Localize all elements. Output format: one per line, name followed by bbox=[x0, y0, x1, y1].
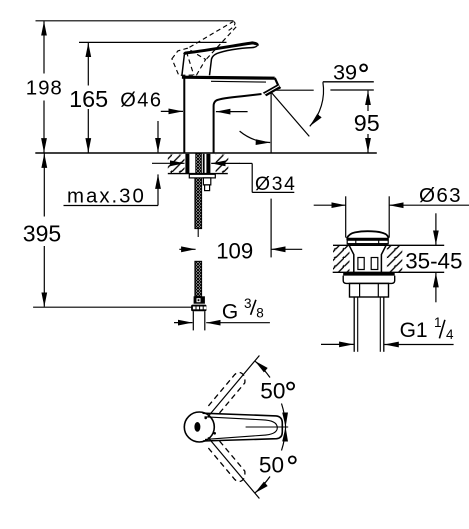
svg-text:50: 50 bbox=[259, 453, 284, 478]
svg-text:39: 39 bbox=[333, 60, 357, 85]
flexible hose lower braid bbox=[195, 261, 202, 296]
wire: outlet level reference line bbox=[273, 89, 314, 91]
wire: basin top line bbox=[333, 244, 444, 246]
dimension G3/8 bbox=[174, 322, 270, 324]
node: spout outlet extension line bbox=[270, 93, 272, 153]
50deg arc lower bbox=[282, 427, 286, 451]
dimension D34 bbox=[152, 163, 294, 192]
spout tip slant bbox=[275, 78, 280, 89]
dashed handle rotated up bbox=[208, 372, 245, 414]
faucet body right edge and spout underside bbox=[214, 94, 262, 153]
svg-text:3: 3 bbox=[244, 296, 252, 311]
drain body in basin bbox=[349, 246, 354, 273]
svg-text:8: 8 bbox=[256, 306, 264, 321]
svg-text:95: 95 bbox=[354, 110, 380, 136]
39deg arc left segment bbox=[240, 131, 271, 142]
basin hatched section bbox=[333, 246, 350, 272]
handle lever top view bbox=[203, 413, 283, 441]
dashed lever raised position bbox=[172, 22, 236, 76]
handle inner outline bbox=[205, 417, 278, 440]
faucet threaded shank bbox=[196, 154, 202, 174]
drain cap dome bbox=[347, 231, 389, 238]
dimension max.30 bbox=[64, 121, 159, 206]
50deg extension line upper bbox=[208, 356, 259, 417]
svg-text:395: 395 bbox=[23, 221, 61, 247]
aerator bbox=[263, 84, 281, 96]
drain tailpipe bbox=[353, 297, 355, 352]
dimension 395 bbox=[43, 153, 45, 306]
handle body circle bbox=[184, 412, 214, 442]
faucet shank walls bbox=[185, 154, 189, 174]
svg-text:109: 109 bbox=[216, 239, 253, 264]
drain cap rim bbox=[346, 238, 388, 240]
drain hex nut bbox=[350, 283, 389, 297]
wire: reference line at solid lever top level bbox=[79, 41, 227, 43]
dimension D46 bbox=[161, 110, 248, 112]
wire: basin bottom line bbox=[333, 271, 445, 273]
dimension G1 1/4 bbox=[321, 343, 454, 345]
hose G3/8 nut bbox=[191, 305, 206, 312]
svg-text:198: 198 bbox=[26, 77, 63, 100]
faucet countertop hatched section bbox=[168, 155, 185, 174]
wire: top reference line (dashed lever tip level) bbox=[36, 20, 234, 22]
dimension 35-45 bbox=[435, 213, 437, 302]
dimension 165 bbox=[87, 43, 89, 153]
faucet spout top edge bbox=[182, 77, 275, 78]
handle centerline bbox=[246, 426, 289, 428]
wire: countertop bottom line bbox=[168, 173, 228, 175]
dimension 95 bbox=[367, 91, 369, 153]
50deg extension line lower bbox=[208, 437, 259, 498]
handle logo dot bbox=[194, 422, 200, 432]
svg-text:Ø34: Ø34 bbox=[255, 174, 297, 195]
dimension 109 bbox=[179, 248, 302, 250]
svg-text:50: 50 bbox=[260, 379, 285, 404]
svg-text:35-45: 35-45 bbox=[405, 248, 462, 273]
svg-text:G1: G1 bbox=[400, 319, 428, 342]
solid lever outline bbox=[182, 43, 257, 76]
solid lever thick top edge bbox=[184, 43, 257, 54]
spout top inner line bbox=[211, 80, 266, 83]
flexible hose upper braid bbox=[195, 178, 202, 229]
hose core line bbox=[197, 229, 199, 237]
dashed handle rotated down bbox=[208, 440, 245, 482]
svg-text:Ø46: Ø46 bbox=[120, 90, 162, 112]
dimension 198 bbox=[43, 21, 45, 152]
hose end tube bbox=[192, 311, 194, 330]
water stream line bbox=[271, 92, 309, 136]
svg-text:G: G bbox=[222, 301, 238, 324]
wire: countertop reference line bbox=[35, 152, 377, 154]
faucet mounting stud nut bbox=[203, 178, 210, 185]
dimension D63 bbox=[314, 196, 469, 237]
hose crimp collar bbox=[194, 296, 205, 303]
dimension 39deg bbox=[323, 81, 374, 83]
svg-text:165: 165 bbox=[69, 86, 108, 112]
39deg arc right segment bbox=[310, 82, 324, 126]
faucet mounting flange bbox=[189, 174, 215, 178]
svg-text:4: 4 bbox=[446, 327, 454, 342]
svg-text:max.30: max.30 bbox=[67, 185, 146, 207]
faucet body left edge bbox=[183, 77, 185, 153]
50deg arc upper bbox=[255, 361, 270, 378]
drain flange bbox=[343, 276, 395, 284]
drain flange gasket bbox=[343, 273, 395, 276]
wire: bottom reference line (hose end level) bbox=[33, 306, 193, 308]
svg-text:Ø63: Ø63 bbox=[419, 184, 462, 207]
svg-text:1: 1 bbox=[434, 315, 442, 330]
